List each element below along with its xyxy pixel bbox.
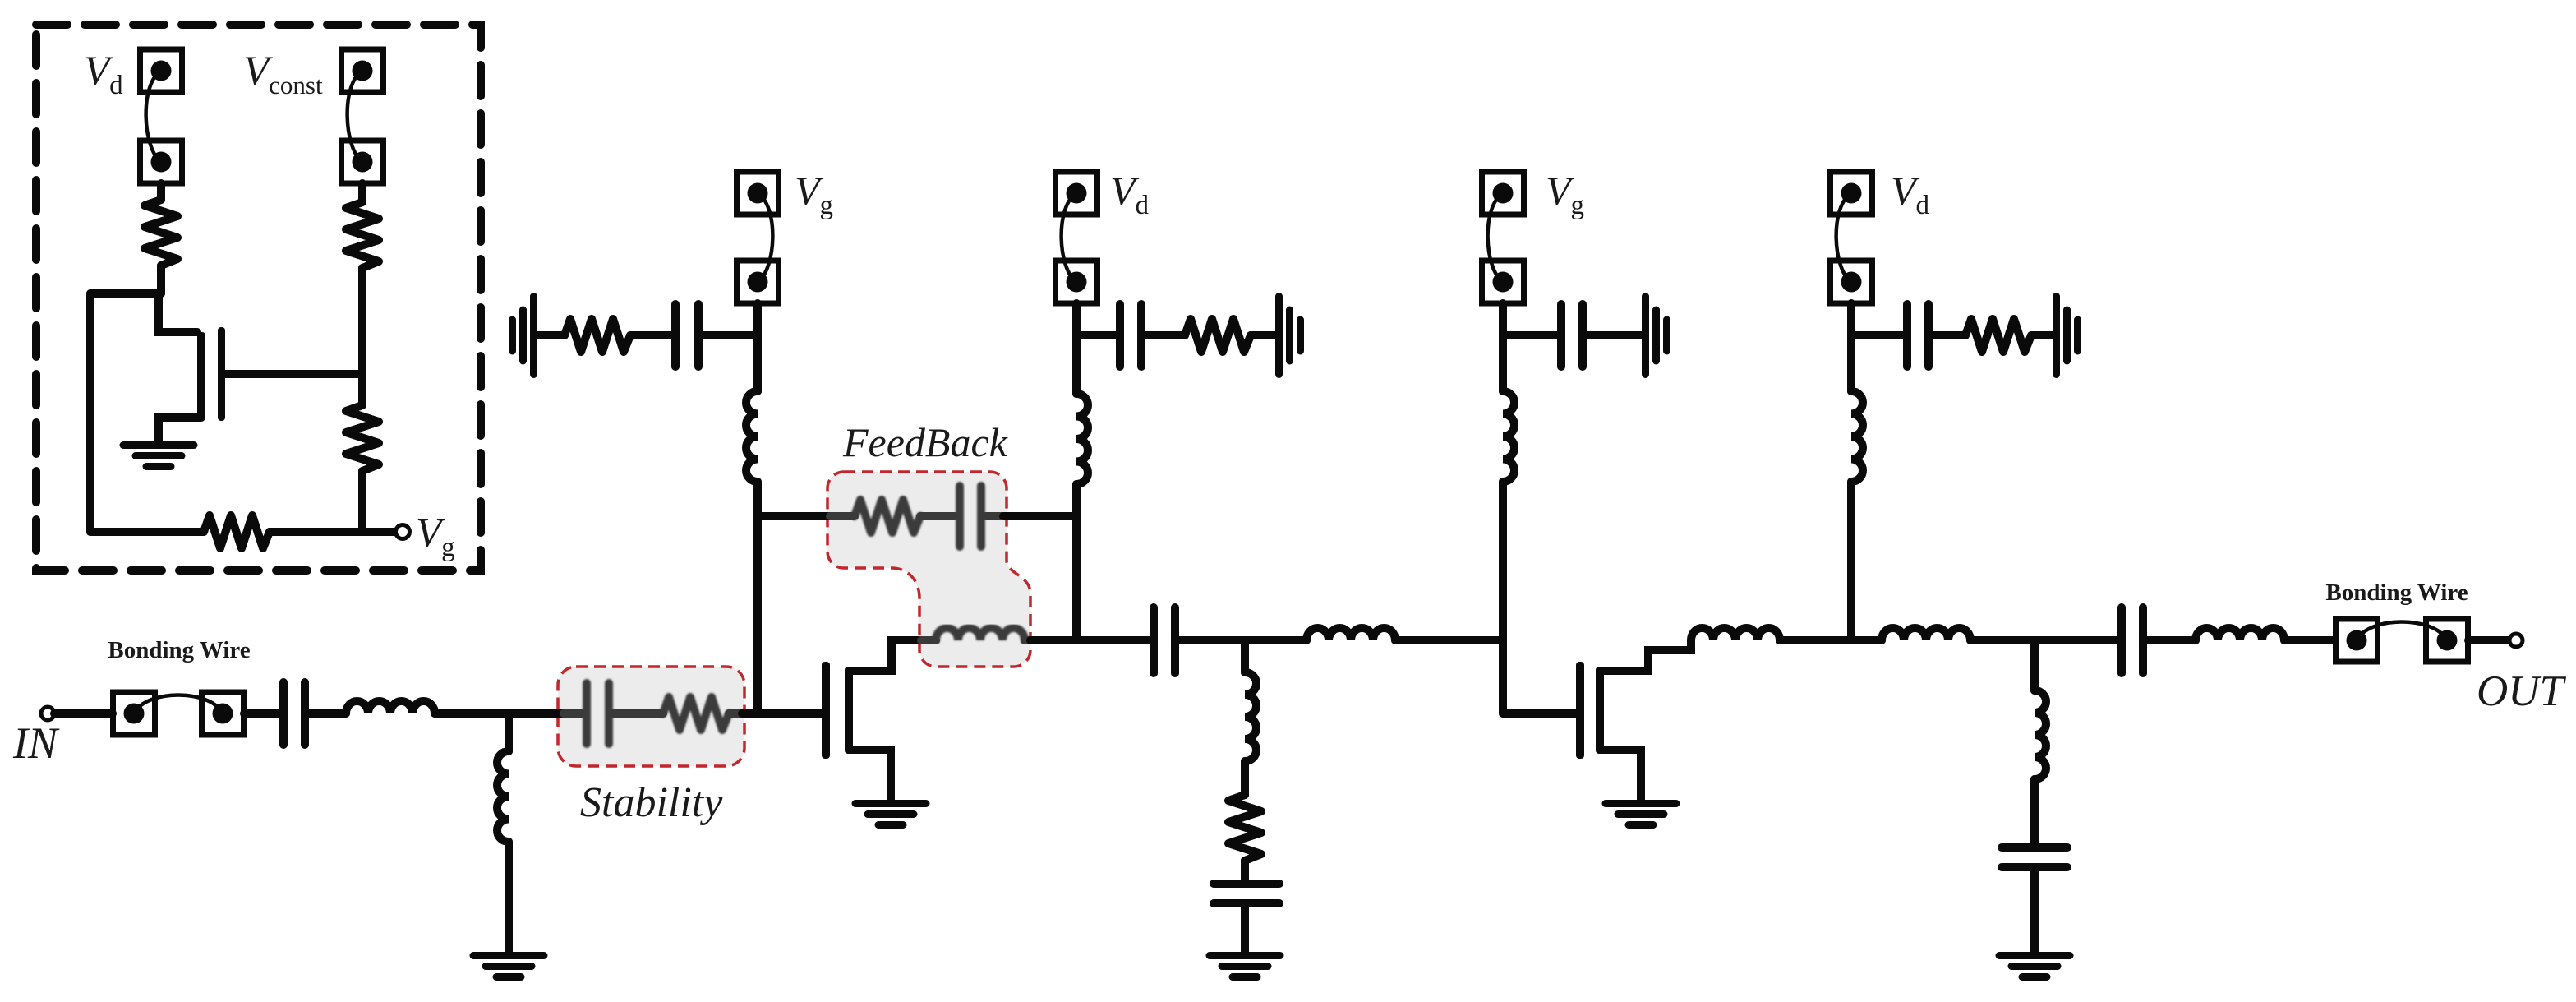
ground GND5 [1279,297,1301,375]
capacitor C5 [1120,304,1141,367]
wire C4 to gate column [703,331,758,339]
feedback row wire left gray [830,512,855,520]
wire L4 to bias row and pad P5 [753,303,762,391]
wire L3 exit region [1025,636,1032,644]
wire L5 to bias row and pad P6 [1072,303,1081,394]
capacitor C10 MIM [2002,847,2067,867]
capacitor C2 stability [587,683,609,744]
wire R6 to C3 [920,512,956,520]
inductor L13 [2196,628,2284,640]
svg-text:IN: IN [12,718,60,768]
resistor R8 [1185,319,1251,352]
transistor Q2 channel [845,667,853,754]
wire C2 to R5 [613,709,663,718]
pad P4 [202,692,244,735]
inductor L3 feedback series [936,628,1025,640]
wire C7 to ground [1241,907,1249,952]
capacitor C8 [1561,304,1583,367]
bond wire arc P6 [1062,193,1076,282]
wire pad P4 to capacitor C1 [244,709,279,718]
wire L12 to C10 [2030,779,2039,843]
wire L10 to bias row and pad P8 [1847,303,1855,391]
wire L2 to ground [505,842,513,952]
node input shunt junction [505,713,513,751]
capacitor C6 interstage series [1154,607,1175,673]
node output shunt junction [2030,640,2039,690]
gate column stage2 vertical down [1499,640,1507,713]
wire to gate of Q3 [1503,709,1576,718]
wire C8 to ground [1587,331,1642,339]
wire R1 to node A [157,266,165,293]
Stability highlight region fill [558,667,744,766]
inductor L9 stage2 drain series [1691,628,1780,640]
pad pair P8 bottom [1831,261,1873,303]
terminal Vg open circle [396,525,410,539]
pad pair P2 (Vconst) top pad [342,49,384,92]
wire L7 to stage2 gate column [1395,636,1503,644]
drain column stage1 vertical [1072,484,1081,640]
inductor L12 output shunt [2035,690,2046,779]
inductor L8 stage2 gate bias column [1503,391,1514,482]
resistor R3 [346,405,379,471]
wire R9 to C7 [1241,861,1249,880]
pad P10 [2426,619,2468,662]
ground GND7 [1646,297,1667,375]
wire drain column to C5 [1076,331,1116,339]
pad pair P7 bottom [1482,261,1524,303]
terminal OUT open circle [2509,634,2523,647]
wire C6 to L7 [1179,636,1306,644]
ground GND6 [1210,956,1280,977]
transistor Q1 gate bar [218,327,225,421]
ground GND2 [473,956,544,977]
pad pair P5 top [737,172,779,215]
wire C9 to R10 [1933,331,1965,339]
wire R7 to C4 [630,331,671,339]
capacitor C4 [675,304,698,367]
wire into stability region gray [564,709,583,718]
wire pad P2 to resistor R2 [358,183,366,202]
wire C11 to L13 [2147,636,2196,644]
resistor R9 [1228,795,1261,861]
ground GND8 [1606,804,1676,825]
wire source of Q1 [159,418,201,441]
bond wire arc output [2357,622,2447,641]
ground GND4 stage1 Vg bias [513,297,534,375]
resistor R6 feedback [855,500,920,533]
wire node A horizontal [90,289,161,298]
resistor R1 [145,200,177,266]
wire to gate of Q2 [742,709,822,718]
transistor Q3 gate bar [1576,662,1584,759]
svg-text:Bonding Wire: Bonding Wire [2325,579,2468,606]
inductor L11 output series [1882,628,1970,640]
wire R5 exit region [729,709,744,718]
transistor Q2 gate bar [822,662,830,759]
bond wire arc P1 [146,71,161,162]
ground GND9 [2057,297,2078,375]
inductor L4 gate bias column [746,391,758,482]
bond wire arc P5 [758,193,772,282]
svg-text:Stability: Stability [580,779,723,826]
wire source of Q3 [1600,750,1641,800]
FeedBack highlight region fill [827,472,1030,667]
wire feedback to drain column [1003,512,1076,520]
capacitor C9 [1907,304,1929,367]
wire R3 to bottom node [358,471,366,532]
transistor Q3 channel [1596,667,1604,754]
wire C5 to R8 [1145,331,1185,339]
drain column stage2 vertical [1847,482,1855,640]
bond wire arc P8 [1836,193,1851,282]
wire bottom left segment [90,528,204,536]
wire C3 exit region gray [985,512,1005,520]
resistor R4 [204,515,270,548]
pad pair P7 top [1482,172,1524,215]
wire source of Q2 [849,750,891,800]
pad pair P1 (Vd) bottom pad [141,141,182,183]
wire R8 to ground [1251,331,1275,339]
wire drain of Q3 staircase [1600,640,1691,671]
wire pad P1 to resistor R1 [157,183,165,200]
wire L6 to R9 [1241,761,1249,795]
inductor L7 interstage series [1306,628,1395,640]
bond wire arc P7 [1488,193,1503,282]
wire L8 to bias row and pad P7 [1499,303,1507,391]
capacitor C3 feedback [960,486,981,547]
pad pair P8 top [1831,172,1873,215]
resistor R2 [346,202,379,268]
wire bottom right segment [270,528,395,536]
pad pair P6 top [1056,172,1098,215]
wire drain of Q2 [849,640,921,671]
wire R2 to R3 through gate node [358,268,366,405]
wire gate of Q1 to Vconst branch [225,370,362,378]
wire L1 to stability network [435,709,564,718]
inductor L6 shunt [1245,672,1256,761]
pad P3 [113,692,155,735]
wire L13 to pad P9 [2284,636,2335,644]
svg-text:Bonding Wire: Bonding Wire [108,637,250,663]
ground GND10 [1999,956,2070,977]
wire drain gray inside region [921,636,936,644]
pad pair P6 bottom [1056,261,1098,303]
inductor L1 [346,701,435,713]
wire GND4 to R7 [537,331,565,339]
wire stage2 gate column to C8 [1503,331,1557,339]
node interstage shunt junction [1241,640,1249,672]
wire C10 to ground [2030,871,2039,952]
wire stage2 drain column to C9 [1851,331,1903,339]
bond wire arc P2 [348,71,362,162]
pad pair P1 (Vd) top pad [141,49,182,92]
wire pad P10 to OUT [2468,636,2509,644]
capacitor C1 [283,682,305,745]
wire L11 to C11 [1970,636,2117,644]
wire C1 to inductor L1 [309,709,346,718]
resistor R5 stability [663,697,729,730]
inductor L10 stage2 drain bias column [1851,391,1863,482]
wire drain of Q1 [159,293,197,332]
inset dashed border box [36,25,481,570]
pad P9 [2336,619,2378,662]
ground GND3 [855,804,926,825]
resistor R10 [1965,319,2031,352]
resistor R7 [565,319,630,352]
pad pair P2 (Vconst) bottom pad [342,141,384,183]
wire drain row to C6 [1030,636,1150,644]
capacitor C11 output series [2122,607,2143,673]
svg-text:FeedBack: FeedBack [842,419,1008,465]
wire R10 to ground [2031,331,2053,339]
wire L9 to L11 [1780,636,1882,644]
gate column stage2 vertical up [1499,482,1507,640]
inductor L2 shunt [497,751,509,842]
ground GND1 [123,446,194,467]
inductor L5 drain bias column [1076,394,1088,484]
transistor Q1 channel [197,332,205,418]
svg-text:OUT: OUT [2477,667,2567,715]
gate column stage1 vertical [753,482,762,713]
pad pair P5 bottom [737,261,779,303]
wire IN to pad P3 [54,709,113,718]
feedback row wire left black [758,512,830,520]
capacitor C7 MIM [1214,884,1279,903]
bond wire arc input [134,695,223,714]
terminal IN open circle [41,707,54,720]
wire left feedback loop [86,293,94,532]
